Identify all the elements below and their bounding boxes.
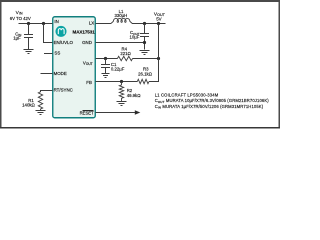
wire VIN rail to IN pin <box>18 23 52 25</box>
figure border frame <box>0 0 280 128</box>
svg-text:49.9kΩ: 49.9kΩ <box>127 93 141 98</box>
svg-text:330µH: 330µH <box>115 13 128 18</box>
svg-text:MAX17531: MAX17531 <box>73 29 96 34</box>
inductor L1 330uH <box>111 18 132 23</box>
svg-text:0.22µF: 0.22µF <box>111 67 125 72</box>
ground (CIN) <box>24 50 34 54</box>
wire R3 to feedback line, feedback vertical <box>149 24 159 82</box>
wire FB pin to R3 <box>95 81 137 83</box>
svg-text:1µF: 1µF <box>13 36 21 41</box>
resistor R3 26.1k <box>137 79 149 83</box>
resistor R4 221ohm <box>117 56 132 60</box>
svg-text:EN/UVLO: EN/UVLO <box>54 40 74 45</box>
node junction C1 <box>104 57 107 60</box>
wire RT/SYNC to R1 <box>41 91 53 92</box>
wire SS stub <box>44 53 53 55</box>
ground (R1) <box>36 111 46 115</box>
wire L1 to output <box>132 23 165 25</box>
Maxim logo <box>56 26 67 37</box>
svg-text:RT/SYNC: RT/SYNC <box>54 87 73 92</box>
capacitor COUT 10uF <box>140 24 149 50</box>
ground (C1) <box>102 74 110 78</box>
svg-text:FB: FB <box>86 80 92 85</box>
svg-text:COUT MURATA 10µF/X7R/6.3V/0805: COUT MURATA 10µF/X7R/6.3V/0805 (GRM21BR7… <box>155 98 270 104</box>
svg-text:140kΩ: 140kΩ <box>22 103 35 108</box>
wire R4 to feedback line <box>133 58 159 60</box>
resistor R1 140k <box>38 92 42 111</box>
node junction GND/COUT <box>143 41 146 44</box>
wire EN/UVLO from VIN rail <box>44 24 53 43</box>
svg-text:CIN MURATA 1µF/X7R/50V/1206 (G: CIN MURATA 1µF/X7R/50V/1206 (GRM31MR71H1… <box>155 104 264 110</box>
wire RESET output with arrow <box>95 112 135 114</box>
ground (COUT) <box>140 51 150 55</box>
svg-text:GND: GND <box>82 40 92 45</box>
resistor R2 49.9k <box>119 82 123 102</box>
svg-text:26.1kΩ: 26.1kΩ <box>138 71 152 76</box>
ground (R2) <box>117 102 127 106</box>
svg-text:IN: IN <box>54 19 58 24</box>
svg-text:SS: SS <box>54 50 60 55</box>
wire MODE stub <box>41 73 53 75</box>
node junction COUT <box>143 22 146 25</box>
node junction R2 <box>120 80 123 83</box>
capacitor CIN 1uF <box>24 24 33 50</box>
svg-text:LX: LX <box>89 20 94 25</box>
regulator IC U1 MAX17531 body <box>53 17 96 118</box>
svg-text:221Ω: 221Ω <box>120 51 130 56</box>
node junction CIN <box>27 22 30 25</box>
node junction feedback <box>157 22 160 25</box>
svg-text:5V: 5V <box>156 16 161 21</box>
node junction R4/feedback <box>157 57 160 60</box>
svg-text:RESET: RESET <box>80 111 94 116</box>
svg-text:10µF: 10µF <box>130 35 140 40</box>
svg-text:6V TO 42V: 6V TO 42V <box>10 16 31 21</box>
svg-text:MODE: MODE <box>54 71 67 76</box>
node junction EN <box>42 22 45 25</box>
wire LX to L1 <box>95 23 111 25</box>
svg-text:L1 COILCRAFT LPS5030-334M: L1 COILCRAFT LPS5030-334M <box>155 92 219 97</box>
wire GND pin to COUT node <box>95 42 144 44</box>
capacitor C1 0.22uF <box>101 59 110 74</box>
svg-text:VOUT: VOUT <box>83 61 93 67</box>
wire VOUT pin to R4 <box>95 58 117 60</box>
